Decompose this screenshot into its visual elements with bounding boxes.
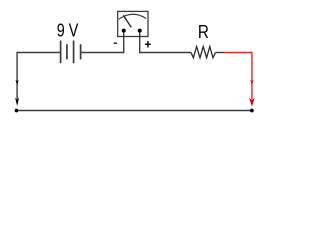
- meter scale arc: [119, 14, 146, 19]
- wire: resistor to red test lead: [216, 52, 225, 54]
- meter minus terminal dot: [122, 29, 126, 33]
- battery 9 V: [61, 41, 81, 64]
- wire: bottom horizontal: [16, 110, 252, 112]
- red current arrow head: [249, 98, 255, 107]
- wire: red test lead horizontal: [225, 52, 253, 54]
- svg-text:R: R: [198, 22, 209, 42]
- wire: top-left horizontal (left node to battery): [17, 52, 60, 54]
- meter plus terminal dot: [138, 29, 142, 33]
- node: bottom-right test point: [250, 109, 254, 113]
- meter (ammeter) body: [118, 11, 148, 36]
- wire: battery to meter minus lead: [81, 52, 125, 54]
- node: bottom-left test point: [15, 109, 19, 113]
- black current arrow head (mid-wire): [16, 80, 19, 85]
- resistor R: [191, 47, 216, 58]
- svg-text:9 V: 9 V: [57, 21, 79, 41]
- wire: meter plus lead (vertical): [139, 31, 141, 53]
- black current arrow head: [15, 98, 19, 107]
- wire: red test lead vertical: [251, 52, 253, 100]
- wire: left vertical (down to bottom-left test point): [16, 52, 18, 100]
- wire: meter to resistor: [140, 52, 191, 54]
- red current arrow head (mid-wire): [250, 80, 253, 85]
- wire: meter minus lead (vertical): [123, 31, 125, 53]
- meter minus label: [114, 42, 118, 44]
- meter plus label: [145, 41, 151, 48]
- meter needle: [123, 15, 131, 27]
